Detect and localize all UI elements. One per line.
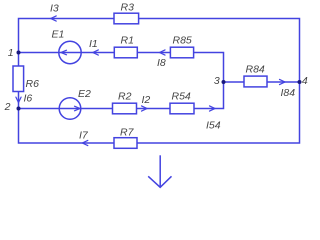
svg-text:R1: R1 xyxy=(121,35,134,47)
svg-text:R84: R84 xyxy=(246,64,265,76)
svg-text:R7: R7 xyxy=(120,127,135,139)
svg-text:3: 3 xyxy=(214,75,220,87)
svg-text:R54: R54 xyxy=(172,91,191,103)
svg-text:I54: I54 xyxy=(206,120,221,132)
svg-text:R6: R6 xyxy=(26,78,40,90)
svg-text:2: 2 xyxy=(4,101,11,113)
svg-text:R85: R85 xyxy=(173,35,192,47)
svg-text:4: 4 xyxy=(302,75,308,87)
svg-text:I7: I7 xyxy=(79,130,89,142)
svg-text:R3: R3 xyxy=(121,2,135,14)
svg-text:I84: I84 xyxy=(281,87,296,99)
svg-text:I8: I8 xyxy=(157,57,166,69)
svg-text:E2: E2 xyxy=(78,88,91,100)
svg-text:I3: I3 xyxy=(50,3,59,15)
svg-text:1: 1 xyxy=(8,47,14,59)
svg-text:R2: R2 xyxy=(118,91,132,103)
svg-text:I6: I6 xyxy=(24,93,33,105)
svg-text:E1: E1 xyxy=(52,29,65,41)
svg-text:I1: I1 xyxy=(89,38,98,50)
svg-text:I2: I2 xyxy=(142,94,151,106)
